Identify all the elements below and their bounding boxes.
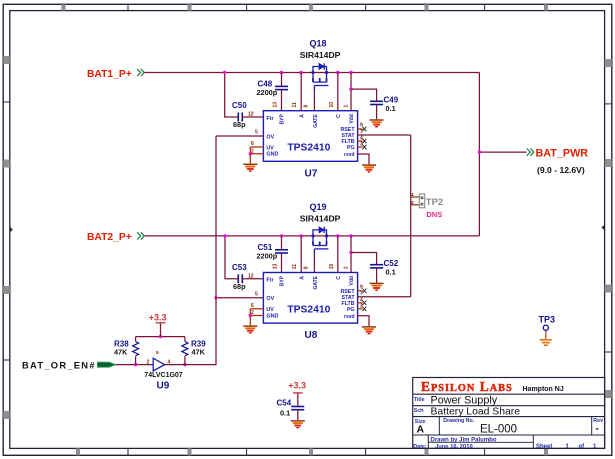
- junction A pin: [300, 71, 303, 74]
- svg-text:5: 5: [255, 291, 258, 297]
- transistor Q18: [313, 63, 328, 91]
- junction U8 GND: [249, 314, 252, 317]
- svg-text:PG: PG: [347, 145, 355, 151]
- svg-text:Vdd: Vdd: [349, 276, 355, 285]
- wire R38 leads: [135, 337, 137, 365]
- svg-text:A: A: [299, 114, 305, 118]
- wire STAT vertical to TP2 and U8 STAT: [410, 135, 412, 297]
- svg-text:TPS2410: TPS2410: [287, 143, 330, 154]
- wire rail to C pin 10: [337, 73, 339, 111]
- svg-text:Date:: Date:: [413, 444, 426, 450]
- svg-text:C54: C54: [277, 398, 292, 407]
- svg-text:GND: GND: [266, 152, 278, 158]
- wire +3.3 to pull-up rail: [160, 323, 162, 337]
- wire BAT_PWR branch: [479, 151, 526, 153]
- junction +3.3 tee: [159, 335, 162, 338]
- svg-text:1: 1: [344, 105, 350, 108]
- pin U8 RSET stub: [358, 290, 363, 292]
- junction U8 OV tee: [214, 296, 217, 299]
- port BAT2_P+: [137, 232, 144, 239]
- svg-text:3: 3: [360, 303, 363, 309]
- ground U8 rsvd: [362, 327, 376, 334]
- svg-text:8: 8: [304, 266, 310, 269]
- svg-text:3: 3: [360, 142, 363, 148]
- svg-text:EL-000: EL-000: [480, 423, 517, 435]
- svg-text:13: 13: [273, 264, 279, 270]
- wire U8 GND to ground: [249, 316, 251, 326]
- pin U8 FLTB stub: [358, 302, 363, 304]
- wire C53 branch: [225, 236, 238, 279]
- resistor R38: [133, 342, 139, 356]
- capacitor C54: [291, 407, 304, 410]
- svg-text:68p: 68p: [233, 120, 246, 129]
- svg-text:4: 4: [168, 359, 171, 365]
- svg-text:C50: C50: [232, 101, 247, 110]
- svg-text:5: 5: [255, 130, 258, 136]
- border zone grey marks: [62, 4, 66, 10]
- junction A pin U8: [300, 234, 303, 237]
- wire U8 OV pin 5: [216, 297, 263, 299]
- svg-text:GATE: GATE: [313, 275, 319, 289]
- svg-text:47K: 47K: [114, 348, 128, 357]
- wire Vdd to C49: [351, 89, 377, 101]
- svg-text:U8: U8: [305, 330, 318, 341]
- wire rail to C pin 10 U8: [337, 236, 339, 273]
- svg-text:1: 1: [566, 444, 570, 450]
- svg-text:12: 12: [248, 273, 254, 279]
- svg-text:GATE: GATE: [313, 114, 319, 128]
- junction C53 branch: [223, 234, 226, 237]
- wire C53 to Ftr pin 12: [242, 278, 263, 280]
- ground U7 rsvd: [362, 165, 376, 172]
- power +3.3 bar U9: [156, 322, 166, 324]
- svg-text:11: 11: [292, 264, 298, 270]
- capacitor C51: [275, 250, 288, 253]
- junction C48 top: [280, 71, 283, 74]
- capacitor C52: [370, 265, 383, 268]
- junction Vdd pin: [349, 71, 352, 74]
- svg-text:Ftr: Ftr: [266, 278, 274, 284]
- wire R39 leads: [184, 337, 186, 365]
- svg-text:GND: GND: [266, 313, 278, 319]
- svg-text:Ftr: Ftr: [266, 116, 274, 122]
- svg-text:2: 2: [411, 200, 414, 206]
- svg-text:6: 6: [251, 303, 254, 309]
- svg-text:C: C: [336, 114, 342, 118]
- wire C50 to Ftr pin 12: [242, 116, 263, 118]
- pin U7 FLTB stub: [358, 140, 363, 142]
- svg-text:10: 10: [329, 102, 335, 108]
- svg-text:+3.3: +3.3: [149, 312, 167, 322]
- no-connect X U7 FLTB: [362, 139, 366, 144]
- wire Q19 gate to GATE pin 8: [313, 254, 315, 272]
- junction U7 GND: [249, 152, 252, 155]
- svg-text:BYP: BYP: [280, 275, 286, 286]
- svg-text:Q18: Q18: [310, 39, 327, 49]
- wire U8 STAT: [358, 296, 411, 298]
- junction C50 branch: [223, 71, 226, 74]
- wire rail to Vdd pin 1 U8: [350, 236, 352, 273]
- junction Vdd pin U8: [349, 234, 352, 237]
- no-connect X U7 PG: [362, 145, 366, 150]
- svg-text:1: 1: [593, 444, 597, 450]
- op-amp U9 buffer triangle: [153, 358, 164, 371]
- svg-text:BYP: BYP: [280, 114, 286, 125]
- power +3.3 bar C54: [293, 392, 303, 394]
- svg-text:9: 9: [360, 284, 363, 290]
- wire U7 GND to ground: [249, 154, 251, 164]
- svg-text:rsvd: rsvd: [344, 152, 355, 158]
- resistor R39: [182, 342, 188, 356]
- svg-text:U7: U7: [305, 168, 318, 179]
- junction C pin U8: [336, 234, 339, 237]
- capacitor C48: [275, 86, 288, 89]
- wire U7 OV pin 5: [216, 135, 263, 137]
- svg-text:(9.0 - 12.6V): (9.0 - 12.6V): [537, 165, 585, 175]
- junction BAT_PWR: [478, 150, 481, 153]
- junction R38 bottom: [134, 363, 137, 366]
- wire U7 rsvd to ground: [358, 154, 369, 164]
- wire BAT2 rail: [144, 235, 479, 237]
- svg-text:Vdd: Vdd: [349, 114, 355, 123]
- junction C pin: [336, 71, 339, 74]
- svg-text:68p: 68p: [233, 282, 246, 291]
- wire rail to A pin 11: [300, 73, 302, 111]
- port BAT1_P+: [137, 69, 144, 76]
- svg-text:8: 8: [304, 105, 310, 108]
- svg-text:0.1: 0.1: [386, 267, 396, 276]
- capacitor C53: [238, 274, 242, 283]
- junction C49 tee: [349, 87, 352, 90]
- svg-text:1: 1: [411, 192, 414, 198]
- svg-text:June 16, 2010: June 16, 2010: [435, 444, 473, 450]
- wire +3.3 to C54: [297, 393, 299, 406]
- svg-text:U9: U9: [157, 381, 170, 392]
- svg-text:rsvd: rsvd: [344, 314, 355, 320]
- transistor Q18 terminals: [311, 71, 314, 74]
- wire BAT_OR_EN# to U9 input: [115, 364, 153, 366]
- svg-text:A: A: [299, 276, 305, 280]
- wire TP2 pin stubs: [411, 197, 420, 205]
- wire C50 branch: [225, 73, 239, 118]
- svg-text:BAT_PWR: BAT_PWR: [536, 148, 589, 160]
- wire Q18 gate to GATE pin 8: [313, 91, 315, 111]
- wire U8 UV GND tie: [250, 309, 263, 316]
- ground C49: [370, 120, 384, 127]
- svg-text:2200p: 2200p: [257, 88, 278, 97]
- svg-text:Drawn by Jim Palumbo: Drawn by Jim Palumbo: [431, 438, 497, 444]
- wire C48 top lead: [281, 73, 283, 87]
- svg-text:A: A: [417, 423, 425, 435]
- wire C51 to BYP pin 13: [281, 253, 283, 272]
- port BAT_OR_EN#: [98, 362, 116, 367]
- svg-text:of: of: [579, 444, 586, 450]
- pin U7 RSET stub: [358, 128, 363, 130]
- transistor Q19 terminals: [311, 234, 314, 237]
- wire C52 to ground: [376, 268, 378, 283]
- svg-text:5: 5: [156, 350, 159, 356]
- svg-text:12: 12: [248, 112, 254, 118]
- svg-text:1: 1: [344, 266, 350, 269]
- wire C54 to ground: [297, 410, 299, 420]
- svg-text:Hampton NJ: Hampton NJ: [523, 386, 564, 393]
- svg-text:+3.3: +3.3: [288, 380, 306, 390]
- svg-text:EPSILON LABS: EPSILON LABS: [421, 379, 513, 394]
- wire pull-up rail: [136, 336, 185, 338]
- svg-text:Q19: Q19: [310, 202, 327, 212]
- svg-text:2200p: 2200p: [257, 251, 278, 260]
- svg-text:TPS2410: TPS2410: [287, 305, 330, 316]
- svg-text:7: 7: [360, 291, 363, 297]
- junction C52 tee: [349, 251, 352, 254]
- svg-text:Sch: Sch: [414, 408, 424, 414]
- no-connect X U8 FLTB: [362, 301, 366, 306]
- svg-text:BAT2_P+: BAT2_P+: [87, 232, 132, 243]
- svg-text:TP2: TP2: [426, 197, 443, 208]
- transistor Q19: [313, 227, 328, 255]
- svg-text:SIR414DP: SIR414DP: [300, 214, 341, 224]
- port BAT_PWR: [527, 149, 534, 156]
- ground U8 GND: [243, 326, 257, 333]
- svg-text:Title: Title: [414, 397, 425, 403]
- svg-text:6: 6: [251, 141, 254, 147]
- op-amp U8 TPS2410: [263, 273, 357, 324]
- wire C51 top lead: [281, 236, 283, 250]
- pin U8 PG stub: [358, 308, 363, 310]
- ground C54: [291, 421, 305, 428]
- svg-text:SIR414DP: SIR414DP: [300, 50, 341, 60]
- svg-text:11: 11: [292, 102, 298, 108]
- wire OV vertical: [215, 136, 217, 298]
- svg-text:2: 2: [147, 359, 150, 365]
- svg-text:47K: 47K: [192, 348, 206, 357]
- junction R39 bottom: [183, 363, 186, 366]
- svg-text:DNS: DNS: [426, 210, 442, 219]
- junction C51 top: [280, 234, 283, 237]
- svg-text:BAT1_P+: BAT1_P+: [87, 69, 132, 80]
- svg-text:OV: OV: [266, 296, 274, 302]
- svg-text:9: 9: [360, 123, 363, 129]
- svg-text:UV: UV: [266, 145, 274, 151]
- svg-text:OV: OV: [266, 134, 274, 140]
- svg-text:TP3: TP3: [539, 314, 556, 324]
- svg-text:7: 7: [360, 129, 363, 135]
- svg-text:0.1: 0.1: [386, 104, 396, 113]
- svg-text:C53: C53: [232, 263, 247, 272]
- op-amp U7 TPS2410: [263, 111, 357, 162]
- ground U7 GND: [243, 164, 257, 171]
- wire rail to Vdd pin 1: [350, 73, 352, 111]
- svg-text:Battery Load Share: Battery Load Share: [431, 406, 521, 417]
- svg-text:74LVC1G07: 74LVC1G07: [144, 372, 182, 379]
- capacitor C49: [370, 101, 383, 104]
- wire Vdd to C52: [351, 253, 377, 265]
- test point TP3 pad: [543, 325, 548, 330]
- title block grid: [413, 378, 605, 449]
- wire U7 STAT: [358, 134, 411, 136]
- capacitor C50: [238, 113, 242, 122]
- wire U8 rsvd to ground: [358, 316, 369, 326]
- svg-text:PG: PG: [347, 307, 355, 313]
- no-connect X U8 PG: [362, 307, 366, 312]
- wire BAT1-to-BAT2 right vertical: [478, 73, 480, 236]
- wire C49 to ground: [376, 105, 378, 120]
- wire C48 to BYP pin 13: [281, 90, 283, 111]
- wire TP3 to ground: [545, 331, 547, 339]
- wire BAT1 rail: [144, 72, 479, 74]
- wire U9 output to OV net: [164, 298, 216, 365]
- svg-text:C: C: [336, 276, 342, 280]
- svg-text:UV: UV: [266, 307, 274, 313]
- svg-text:Power Supply: Power Supply: [431, 394, 498, 406]
- svg-text:-: -: [596, 423, 599, 434]
- svg-text:Drawing No.: Drawing No.: [443, 418, 474, 424]
- pin U7 PG stub: [358, 146, 363, 148]
- svg-text:0.1: 0.1: [280, 408, 290, 417]
- ground TP3: [540, 340, 552, 345]
- wire U7 UV GND tie: [250, 147, 263, 154]
- svg-text:Sheet: Sheet: [536, 444, 552, 450]
- border zone dividers: [127, 4, 129, 10]
- svg-text:BAT_OR_EN#: BAT_OR_EN#: [22, 361, 96, 371]
- no-connect X U8 RSET: [362, 289, 366, 294]
- ground C52: [370, 283, 384, 290]
- connector TP2: [419, 194, 424, 208]
- svg-text:10: 10: [329, 264, 335, 270]
- no-connect X U7 RSET: [362, 127, 366, 132]
- svg-text:13: 13: [273, 102, 279, 108]
- wire rail to A pin 11 U8: [300, 236, 302, 273]
